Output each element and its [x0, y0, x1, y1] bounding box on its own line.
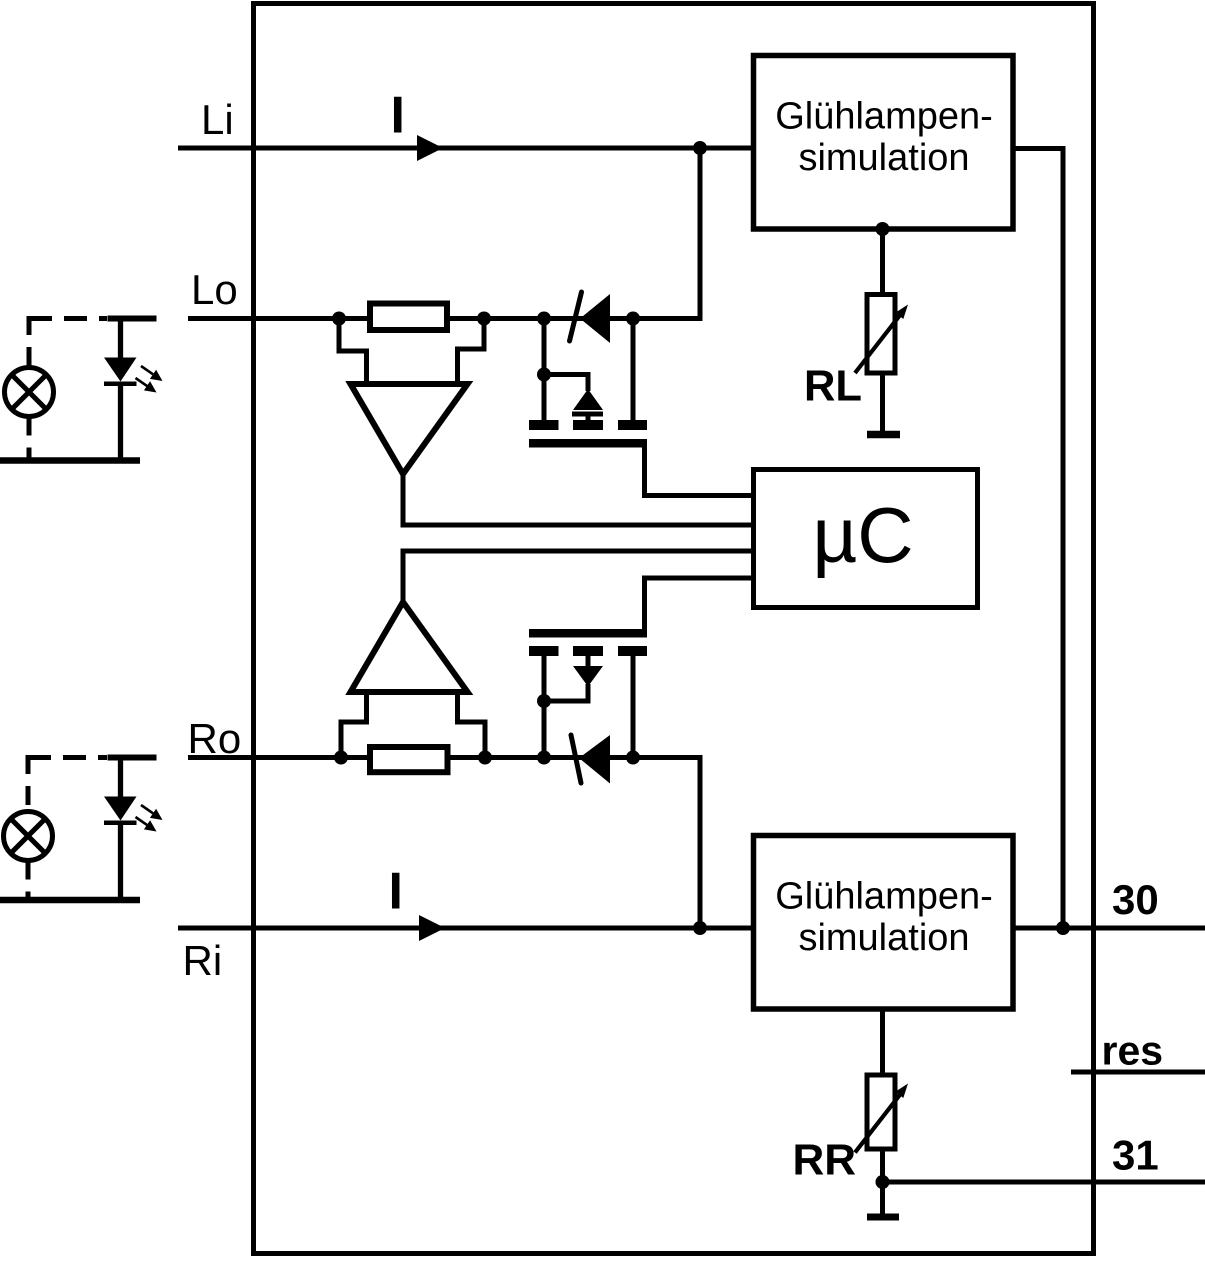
- Q1 gate bar: [529, 439, 647, 448]
- Q1 drain contact bar: [618, 420, 647, 430]
- svg-text:Lo: Lo: [191, 266, 238, 313]
- wire Q2 body tap: [544, 684, 588, 701]
- node RR / 31: [876, 1175, 890, 1189]
- node Q1 source-body: [537, 368, 551, 382]
- slash D2 cathode: [571, 735, 581, 783]
- wire Q1 drain vertical: [631, 319, 636, 423]
- transistor Q2 (p-MOSFET lower): [529, 578, 753, 758]
- Q2 drain contact bar: [618, 646, 647, 656]
- wire Q2 source vertical: [542, 654, 547, 758]
- wire op-amp U2 input right step: [458, 692, 486, 758]
- wire Ro line: [188, 755, 700, 760]
- wire box bottom to RL: [880, 229, 885, 296]
- wire Li junction down to Lo diode net: [633, 148, 700, 319]
- diode D2 (in Ro line, cathode left): [579, 735, 610, 784]
- svg-text:I: I: [391, 87, 405, 145]
- Q2 source contact bar: [529, 646, 559, 656]
- slash D1 cathode: [570, 292, 582, 341]
- node Ro MOSFET source: [537, 751, 551, 765]
- resistor RR (variable): [855, 1075, 908, 1153]
- wire return bar top group: [0, 457, 140, 464]
- LED D3: [104, 358, 137, 382]
- lamp group left-top (outside ECU): [0, 316, 163, 462]
- svg-text:RR: RR: [792, 1136, 856, 1185]
- body diode Q1: [573, 389, 603, 410]
- node Lo diode anode: [626, 312, 640, 326]
- svg-text:µC: µC: [812, 491, 913, 579]
- block Gluehlampensimulation (right/bottom): [754, 836, 1014, 1010]
- svg-text:Li: Li: [201, 96, 234, 143]
- arrows LED1 light: [136, 366, 163, 393]
- LED D4: [104, 797, 137, 821]
- wire op-amp U1 input left step: [339, 319, 367, 385]
- Q1 body contact bar: [573, 420, 603, 430]
- wire dashed top (Lo external): [29, 316, 107, 321]
- wire LED2 cathode: [118, 823, 123, 900]
- diode D1 (in Lo line, cathode left): [580, 294, 610, 343]
- wire LED1 cathode: [118, 384, 123, 460]
- Q2 gate bar: [529, 629, 647, 638]
- wire Q2 gate to uC: [645, 578, 754, 631]
- wire Q1 gate to uC: [645, 445, 754, 496]
- wire op-amp U1 output to uC: [403, 474, 753, 525]
- wire dashed lamp2 top lead: [26, 755, 31, 812]
- terminal bar RR: [867, 1214, 899, 1221]
- svg-text:res: res: [1102, 1028, 1164, 1074]
- wire Li input line: [178, 146, 753, 151]
- wire 31 line: [883, 1180, 1205, 1185]
- svg-text:30: 30: [1112, 876, 1159, 923]
- node Lo right of resistor: [477, 312, 491, 326]
- wire RL bottom: [880, 373, 885, 435]
- resistor RL (variable): [855, 295, 908, 374]
- node 30 junction: [1056, 921, 1070, 935]
- wire dashed lamp1 top lead: [27, 316, 32, 368]
- lamp E2: [4, 812, 53, 861]
- node RL top: [876, 222, 890, 236]
- node Ro right of resistor: [478, 751, 492, 765]
- outer ECU box border: [254, 4, 1094, 1254]
- wire res line: [1071, 1070, 1205, 1075]
- lamp group left-bottom (outside ECU): [0, 755, 163, 902]
- wire dashed lamp2 bottom lead: [26, 861, 31, 903]
- svg-text:simulation: simulation: [798, 137, 969, 179]
- svg-text:I: I: [389, 863, 403, 921]
- node Q2 source-body: [537, 694, 551, 708]
- Q1 source contact bar: [529, 420, 559, 430]
- svg-text:Glühlampen-: Glühlampen-: [775, 96, 993, 138]
- lamp E1: [5, 368, 54, 417]
- arrow current direction Li: [417, 135, 443, 161]
- wire Q2 drain vertical: [631, 654, 636, 758]
- svg-text:Ro: Ro: [188, 715, 242, 762]
- resistor shunt (Lo): [370, 304, 447, 331]
- op-amp U1 (comparator, points down): [351, 384, 468, 474]
- wire return bar bottom group: [0, 897, 140, 904]
- terminal bar LED1 top: [108, 316, 157, 322]
- Q2 body contact bar: [573, 646, 603, 656]
- node Ro diode anode: [626, 751, 640, 765]
- wire RR bottom: [880, 1150, 885, 1217]
- arrow current direction Ri: [419, 915, 445, 941]
- wire LED1 anode: [118, 319, 123, 361]
- resistor shunt (Ro): [370, 747, 448, 772]
- svg-text:RL: RL: [804, 363, 862, 411]
- node Lo MOSFET source: [537, 312, 551, 326]
- transistor Q1 (p-MOSFET): [529, 319, 753, 496]
- wire Ro to Ri junction: [633, 758, 700, 929]
- svg-text:Glühlampen-: Glühlampen-: [775, 876, 993, 918]
- wire box output right to 30 rail: [1013, 149, 1063, 929]
- terminal bar LED2 top: [108, 755, 157, 761]
- svg-text:31: 31: [1112, 1132, 1159, 1179]
- node Lo left of resistor: [332, 312, 346, 326]
- terminal bar RL: [867, 431, 900, 439]
- wire op-amp U2 output to uC: [403, 551, 753, 602]
- node Li branch junction: [693, 141, 707, 155]
- wire 30 output line: [1013, 926, 1205, 931]
- svg-text:simulation: simulation: [798, 917, 969, 959]
- wire Q1 source vertical: [542, 319, 547, 423]
- node Ro left of resistor: [334, 751, 348, 765]
- wire op-amp U2 input left step: [341, 692, 367, 758]
- body diode Q2: [586, 654, 591, 668]
- wire box bottom to RR: [880, 1009, 885, 1078]
- wire dashed lamp1 bottom lead: [27, 417, 32, 463]
- node Ri junction: [693, 921, 707, 935]
- op-amp U2 (points up): [351, 602, 468, 692]
- wire op-amp U1 input right step: [458, 319, 485, 385]
- wire Lo line: [188, 316, 700, 321]
- wire LED2 anode: [118, 758, 123, 800]
- arrows LED2 light: [136, 805, 163, 832]
- wire dashed top (Ro external): [28, 755, 107, 760]
- wire Ri line: [178, 926, 753, 931]
- svg-text:Ri: Ri: [183, 937, 223, 984]
- wire Q1 body tap: [544, 375, 588, 392]
- block uC: [754, 470, 978, 608]
- block Gluehlampensimulation (left/top): [754, 56, 1014, 230]
